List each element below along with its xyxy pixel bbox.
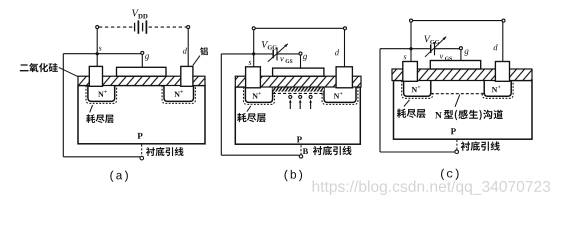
label VGG panel-b [262, 41, 277, 49]
label g panel-c [464, 50, 468, 56]
substrate P panel-a [78, 86, 205, 144]
wire: dashed supply wire right panel-a [149, 26, 187, 28]
battery VDD panel-a [135, 20, 147, 33]
wire: panel-c s to battery [380, 48, 430, 50]
terminal s top panel-a [96, 26, 99, 29]
wire: panel-c drain lead [502, 22, 504, 61]
panel-b right N+ region [324, 87, 356, 102]
induced N channel panel-c [432, 81, 484, 93]
label P panel-c [451, 128, 456, 134]
label B panel-b [303, 148, 308, 154]
terminal g panel-b [299, 52, 302, 55]
pointer silicon-dioxide [59, 67, 78, 76]
wire: panel-b gate lead [300, 55, 302, 68]
label substrate-lead panel-a [146, 147, 184, 156]
wire: panel-c left rail [379, 49, 381, 152]
label VDD [132, 10, 147, 19]
pointer depletion-layer panel-c [404, 100, 410, 107]
panel-a right depletion-layer dashed outline [162, 86, 195, 104]
wire: panel-c source lead [410, 22, 412, 61]
substrate P panel-b [235, 87, 360, 144]
gate metal panel-a [117, 67, 167, 76]
label g panel-a [145, 54, 149, 60]
label substrate-lead panel-b [313, 146, 352, 155]
silicon-dioxide oxide layer panel-a [78, 76, 205, 85]
watermark [313, 180, 551, 195]
wire: source lead panel-a [96, 29, 98, 67]
label d panel-c [494, 44, 498, 50]
label depletion-layer panel-c [397, 109, 426, 118]
gate metal panel-b [273, 68, 324, 76]
terminal d top panel-b [344, 27, 347, 30]
substrate P panel-c [394, 81, 533, 140]
label N+ panel-b right [334, 92, 343, 99]
label s panel-a [99, 47, 102, 51]
wire: panel-b top wire [254, 27, 345, 29]
adjust arrow VGG panel-c [425, 37, 446, 57]
label N+ panel-a left [98, 90, 107, 97]
source metal contact panel-a [89, 66, 102, 86]
wire: panel-a source-substrate left rail vertical [62, 54, 64, 157]
silicon-dioxide oxide layer panel-b [235, 76, 361, 87]
panel-b left N+ region [245, 87, 272, 102]
label substrate-lead panel-c [461, 141, 500, 150]
pointer depletion-layer panel-a [90, 105, 93, 113]
substrate lead terminal panel-a [140, 156, 144, 160]
terminal d top panel-c [502, 19, 505, 22]
substrate lead dashed panel-c [456, 140, 458, 150]
wire: panel-b bottom wire [221, 154, 299, 156]
label N-type induced channel [435, 112, 442, 118]
substrate lead terminal B panel-b [299, 155, 302, 158]
substrate lead dashed panel-a [141, 144, 143, 155]
terminal s top panel-c [410, 19, 413, 22]
wire: gate lead panel-a [141, 54, 143, 67]
wire: drain lead panel-a [187, 29, 189, 67]
source metal contact panel-c [403, 62, 418, 82]
adjust arrow VGG panel-b [268, 44, 288, 62]
wire: panel-c battery to g [435, 48, 460, 50]
label depletion-layer panel-b [237, 113, 266, 122]
terminal g panel-c [459, 47, 462, 50]
label aluminum [200, 47, 208, 55]
substrate lead terminal panel-c [455, 150, 459, 154]
wire: panel-b source lead [253, 30, 255, 67]
label N+ panel-a right [174, 90, 183, 97]
label s panel-b [248, 61, 251, 65]
wire: panel-b battery to g [277, 53, 299, 55]
drain metal contact panel-c [495, 62, 509, 82]
panel-a left depletion-layer dashed outline [86, 86, 117, 104]
terminal g panel-a [141, 51, 144, 54]
label N+ panel-b left [252, 92, 261, 99]
label vGS panel-c [440, 55, 452, 61]
label silicon-dioxide [20, 63, 58, 72]
wire: panel-c top wire [411, 20, 504, 22]
label s panel-c [403, 55, 406, 59]
label N-type channel cjk [444, 110, 503, 121]
panel-c right depletion-layer dashed outline [482, 81, 513, 99]
label depletion-layer panel-a [86, 114, 113, 123]
label P panel-b [297, 137, 302, 143]
caption (c) [441, 169, 459, 180]
junction s node panel-a [96, 52, 99, 55]
panel-c left N+ region [404, 81, 431, 97]
drain metal contact panel-b [336, 67, 352, 88]
wire: panel-c bottom wire [380, 151, 455, 153]
junction s node panel-c [409, 47, 412, 50]
caption (a) [110, 171, 128, 182]
pointer N-channel [455, 95, 460, 107]
label P panel-a [137, 133, 142, 139]
label d panel-a [183, 48, 187, 54]
panel-a right N+ region [164, 86, 194, 102]
wire: panel-c gate lead [460, 50, 462, 61]
source metal contact panel-b [246, 67, 261, 88]
wire: panel-b s to battery [221, 53, 272, 55]
panel-a left N+ region [88, 86, 115, 102]
wire: panel-b drain lead [344, 30, 346, 67]
label d panel-b [335, 49, 339, 55]
battery VGG panel-c [431, 42, 435, 55]
caption (b) [285, 170, 303, 181]
pointer depletion-layer panel-b [247, 106, 251, 112]
gate metal panel-c [430, 61, 480, 70]
induced depletion region under gate panel-b [273, 87, 324, 92]
panel-b left depletion-layer dashed outline [244, 87, 275, 104]
junction s node panel-b [252, 52, 255, 55]
panel-c right N+ region [484, 81, 511, 97]
battery VGG panel-b [273, 47, 277, 60]
terminal s top panel-b [252, 27, 255, 30]
label N+ panel-c right [492, 86, 501, 93]
wire: panel-b left rail [220, 54, 222, 155]
wire: dashed supply wire left panel-a [99, 26, 133, 28]
drain metal contact panel-a [181, 66, 193, 86]
silicon-dioxide oxide layer panel-c [392, 69, 532, 81]
channel dashed bottom panel-c [431, 93, 484, 95]
label VGG panel-c [424, 36, 439, 44]
electric field / ion symbols panel-b [289, 95, 292, 109]
depletion dashed bottom under gate panel-b [273, 92, 324, 94]
panel-c left depletion-layer dashed outline [402, 81, 433, 99]
wire: s-g horizontal wire panel-a [63, 53, 141, 55]
panel-b right depletion-layer dashed outline [322, 87, 358, 104]
label vGS panel-b [280, 57, 292, 63]
wire: panel-a bottom wire to substrate lead [63, 156, 140, 158]
substrate lead dashed panel-b [300, 145, 302, 154]
terminal d top panel-a [187, 26, 190, 29]
label g panel-b [303, 55, 307, 61]
pointer aluminum [193, 56, 200, 66]
label N+ panel-c left [412, 86, 421, 93]
